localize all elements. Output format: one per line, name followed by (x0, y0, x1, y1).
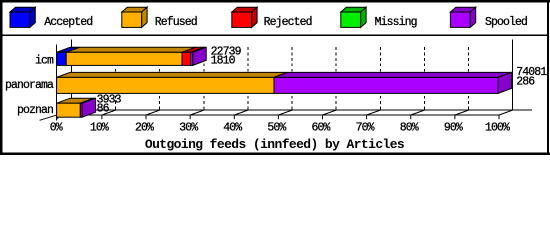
gridline 10% (dashed) (115, 47, 117, 110)
x-axis front line (57, 114, 499, 116)
gridline 80% (dashed) (424, 47, 426, 110)
gridline 40% (dashed) (247, 47, 249, 110)
svg-text:90%: 90% (444, 122, 463, 135)
svg-text:10%: 10% (90, 122, 109, 135)
gridline 70% (dashed) (379, 47, 381, 110)
legend separator line (2, 35, 547, 36)
legend cube Missing (341, 7, 366, 27)
gridline 90% (dashed) (468, 47, 470, 110)
svg-text:Refused: Refused (155, 16, 197, 29)
bar poznan (57, 98, 96, 117)
y-axis front line (56, 45, 58, 121)
legend cube Accepted (10, 7, 35, 27)
svg-text:60%: 60% (311, 122, 330, 135)
svg-text:70%: 70% (356, 122, 375, 135)
svg-text:50%: 50% (267, 122, 286, 135)
x-axis back line (71, 109, 532, 111)
svg-text:Accepted: Accepted (44, 16, 92, 29)
gridline 100% back (solid) (512, 39, 514, 110)
outer border (0, 0, 550, 155)
svg-text:100%: 100% (485, 122, 510, 135)
legend cube Refused (122, 7, 147, 27)
gridline 50% (dashed) (291, 47, 293, 110)
x-axis left overhang diagonal (40, 115, 57, 120)
gridline 0% back (solid) (71, 39, 73, 110)
gridline 30% (dashed) (203, 47, 205, 110)
svg-text:40%: 40% (223, 122, 242, 135)
gridline 60% (dashed) (335, 47, 337, 110)
svg-text:286: 286 (516, 75, 535, 88)
svg-text:Spooled: Spooled (485, 16, 527, 29)
svg-text:Rejected: Rejected (264, 16, 312, 29)
x tick labels (50, 122, 510, 135)
legend cube Rejected (232, 7, 257, 27)
bar panorama (57, 72, 512, 93)
bar icm (57, 47, 207, 65)
svg-text:icm: icm (35, 54, 54, 67)
svg-text:poznan: poznan (17, 104, 53, 117)
svg-text:0%: 0% (50, 122, 63, 135)
tick diagonals and stubs (58, 110, 513, 119)
svg-text:Missing: Missing (375, 16, 417, 29)
svg-text:20%: 20% (135, 122, 154, 135)
svg-text:panorama: panorama (5, 79, 54, 92)
svg-text:1810: 1810 (211, 54, 236, 67)
legend cube Spooled (450, 7, 475, 27)
svg-text:30%: 30% (179, 122, 198, 135)
svg-text:Outgoing feeds (innfeed) by Ar: Outgoing feeds (innfeed) by Articles (145, 137, 405, 152)
svg-text:86: 86 (97, 102, 110, 115)
gridline 20% (dashed) (159, 47, 161, 110)
svg-text:80%: 80% (400, 122, 419, 135)
